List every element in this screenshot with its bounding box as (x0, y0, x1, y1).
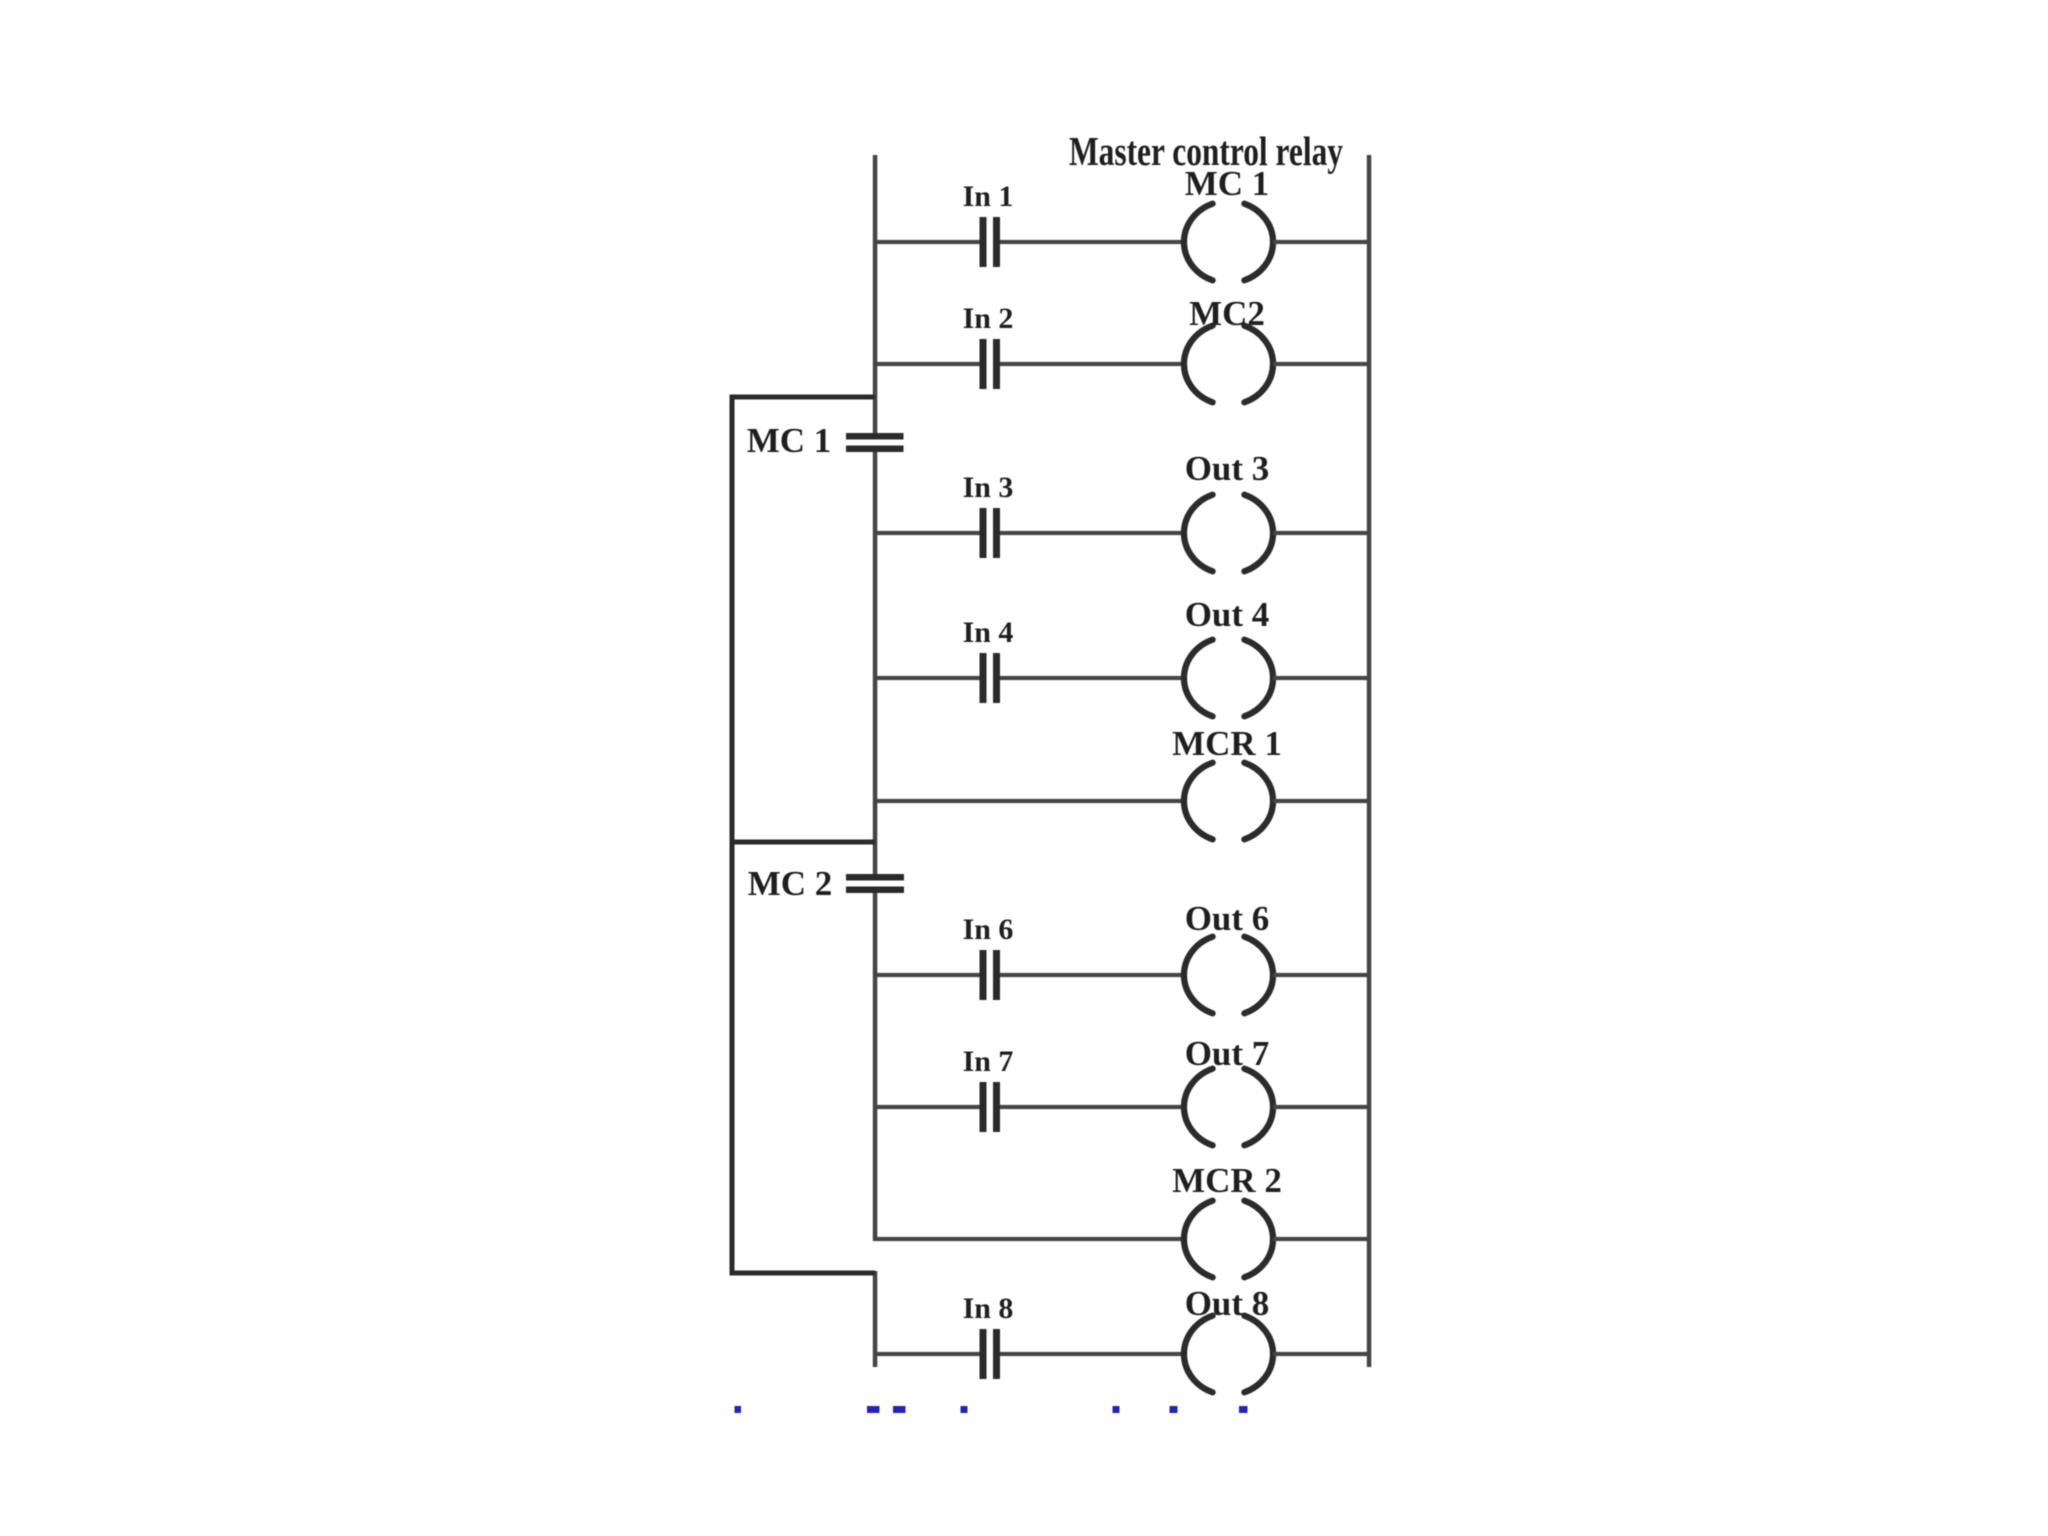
contact MC 1 (master-control contact in left rail) (846, 433, 904, 452)
wire: rung 8 left segment (875, 1237, 1184, 1241)
coil Out 8 (output coil) (1184, 1316, 1273, 1393)
coil MC2 (output coil) (1184, 326, 1273, 403)
contact MC 2 (master-control contact in left rail) (846, 874, 904, 893)
coil Out 6 (output coil) (1184, 937, 1273, 1014)
wire: rung 2 middle segment (1000, 362, 1184, 366)
wire: rung 7 right segment (1273, 1105, 1369, 1109)
wire: rung 9 middle segment (1000, 1352, 1184, 1356)
contact In 8 (normally-open contact) (980, 1329, 1001, 1379)
svg-text:Out 4: Out 4 (1185, 595, 1270, 634)
wire: left rail segment feeding In 8 rung (873, 1271, 878, 1367)
wire: rung 8 right segment (1273, 1237, 1369, 1241)
wire: rung 3 right segment (1273, 531, 1369, 535)
wire: bypass branch vertical (730, 397, 735, 1273)
wire: rung 3 middle segment (1000, 531, 1184, 535)
contact In 4 (normally-open contact) (980, 653, 1001, 703)
wire: rung 7 middle segment (1000, 1105, 1184, 1109)
coil MCR 2 (output coil) (1184, 1201, 1273, 1278)
svg-text:Out 7: Out 7 (1185, 1034, 1270, 1073)
svg-text:In 4: In 4 (963, 616, 1014, 649)
wire: rung 9 right segment (1273, 1352, 1369, 1356)
wire: rung 4 right segment (1273, 676, 1369, 680)
svg-text:MCR 1: MCR 1 (1172, 724, 1282, 763)
wire: rung 1 right segment (1273, 240, 1369, 244)
contact In 3 (normally-open contact) (980, 508, 1001, 558)
wire: rung 4 middle segment (1000, 676, 1184, 680)
contact In 7 (normally-open contact) (980, 1082, 1001, 1132)
wire: rung 3 left segment (875, 531, 980, 535)
wire: rung 6 right segment (1273, 973, 1369, 977)
coil Out 3 (output coil) (1184, 495, 1273, 572)
svg-text:In 1: In 1 (963, 180, 1014, 213)
wire: rung 1 middle segment (1000, 240, 1184, 244)
wire: right power rail (1367, 155, 1372, 1367)
coil Out 4 (output coil) (1184, 640, 1273, 717)
wire: left power rail segment between MC2 contact and MCR2 rung (873, 893, 878, 1241)
wire: rung 1 left segment (875, 240, 980, 244)
decor: blue cut-off text remnants (735, 1406, 742, 1413)
wire: bypass branch bottom stub (feeds In 8 rung) (730, 1271, 876, 1276)
contact In 2 (normally-open contact) (980, 339, 1001, 389)
svg-text:MC 2: MC 2 (748, 864, 833, 903)
wire: rung 9 left segment (875, 1352, 980, 1356)
contact In 1 (normally-open contact) (980, 217, 1001, 267)
wire: left power rail segment top (above MC1 contact) (873, 155, 878, 433)
wire: rung 7 left segment (875, 1105, 980, 1109)
svg-text:MCR 2: MCR 2 (1172, 1161, 1282, 1200)
wire: bypass branch middle stub (above MC 2 contact) (730, 840, 876, 845)
wire: bypass branch top stub (730, 395, 876, 400)
svg-text:In 6: In 6 (963, 913, 1014, 946)
wire: rung 2 right segment (1273, 362, 1369, 366)
svg-text:Out 6: Out 6 (1185, 899, 1270, 938)
svg-text:In 8: In 8 (963, 1292, 1014, 1325)
wire: rung 2 left segment (875, 362, 980, 366)
svg-text:MC 1: MC 1 (747, 421, 832, 460)
svg-text:Out 3: Out 3 (1185, 449, 1270, 488)
svg-text:In 7: In 7 (963, 1045, 1014, 1078)
coil MC 1 (output coil) (1184, 204, 1273, 281)
svg-text:In 3: In 3 (963, 471, 1014, 504)
wire: rung 5 left segment (875, 799, 1184, 803)
svg-text:MC2: MC2 (1189, 294, 1265, 333)
wire: rung 6 middle segment (1000, 973, 1184, 977)
svg-text:In 2: In 2 (963, 302, 1014, 335)
svg-text:MC 1: MC 1 (1185, 164, 1270, 203)
wire: rung 4 left segment (875, 676, 980, 680)
contact In 6 (normally-open contact) (980, 950, 1001, 1000)
svg-text:Out 8: Out 8 (1185, 1284, 1270, 1323)
wire: rung 5 right segment (1273, 799, 1369, 803)
coil MCR 1 (output coil) (1184, 763, 1273, 840)
wire: rung 6 left segment (875, 973, 980, 977)
coil Out 7 (output coil) (1184, 1069, 1273, 1146)
wire: left power rail segment between MC1 and MC2 contacts (873, 452, 878, 874)
